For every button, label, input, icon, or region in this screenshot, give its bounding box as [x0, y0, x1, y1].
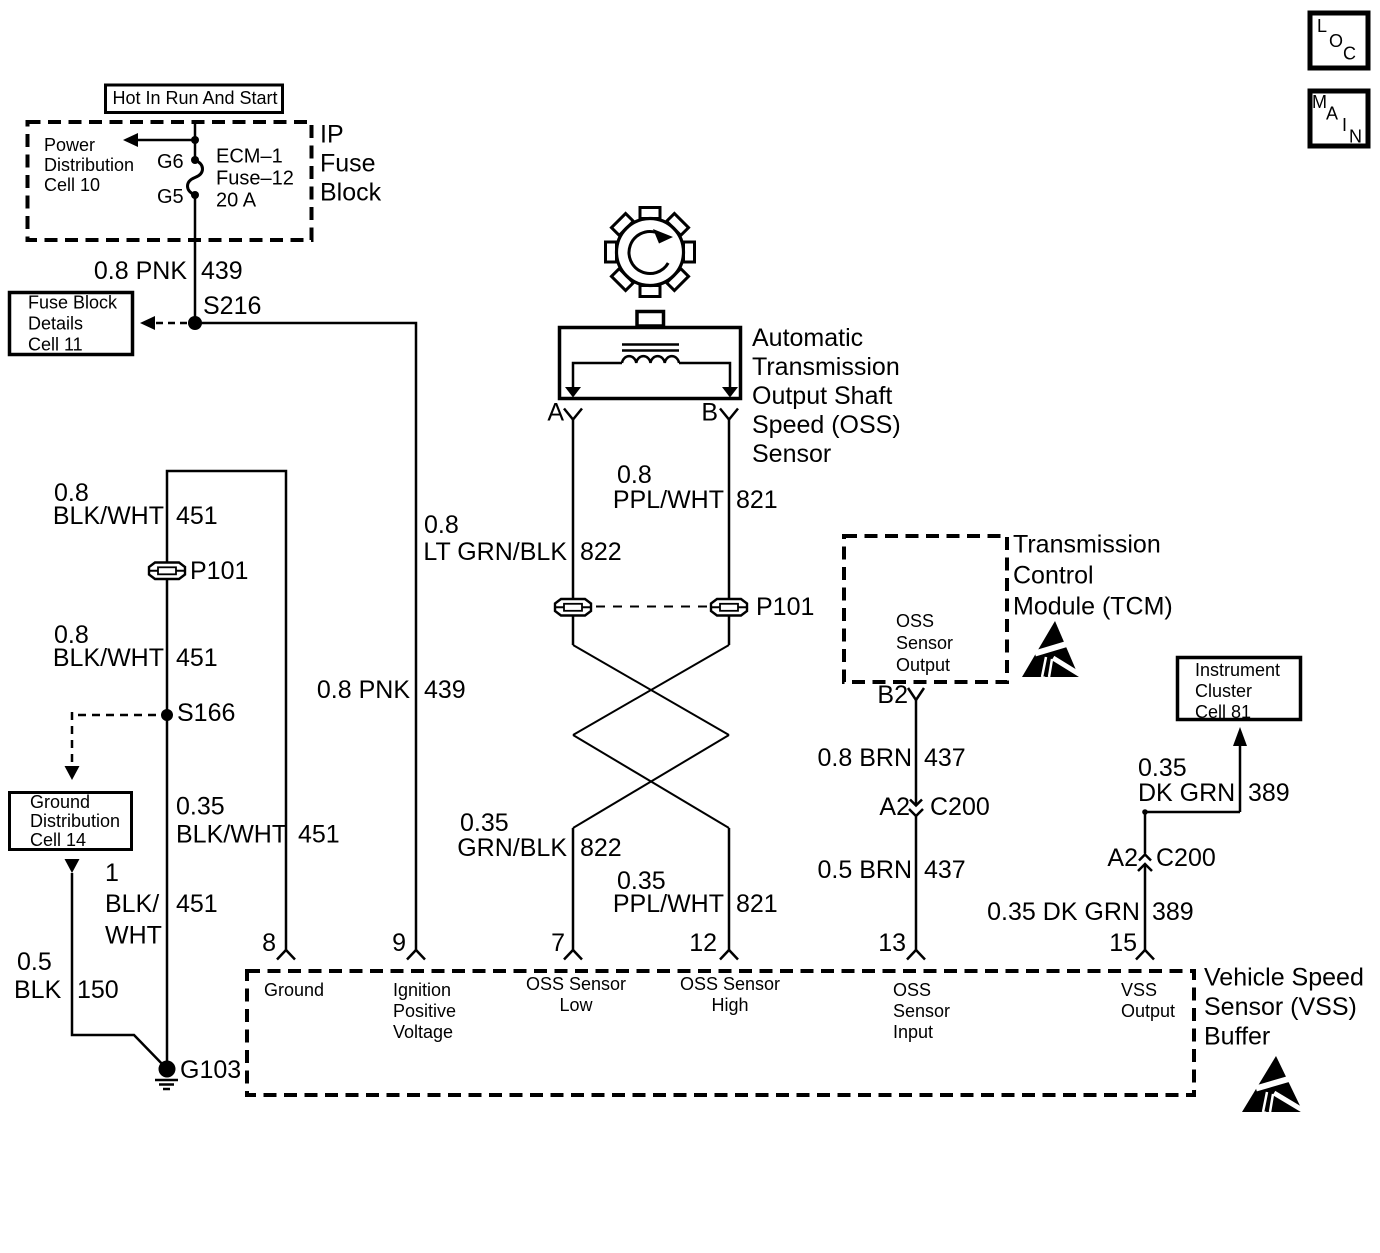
wire S216 over to ignition feed and down to pin 9 — [195, 323, 416, 950]
sensor pickup coil — [622, 356, 679, 363]
svg-text:8: 8 — [262, 929, 276, 957]
wire label 0.8 LT GRN/BLK 822 — [423, 511, 621, 566]
IP Fuse Block title — [320, 121, 382, 207]
svg-text:B2: B2 — [877, 681, 908, 709]
connector P101 (OSS low wire) — [555, 599, 591, 616]
svg-text:I: I — [1342, 115, 1347, 135]
svg-text:20 A: 20 A — [216, 190, 257, 212]
svg-text:PPL/WHT: PPL/WHT — [613, 890, 724, 918]
svg-text:0.35: 0.35 — [1138, 754, 1187, 782]
svg-text:Low: Low — [559, 995, 593, 1015]
wire label 0.8 PNK 439 (vertical run) — [317, 676, 466, 704]
svg-text:Cell 11: Cell 11 — [28, 335, 83, 355]
wire C200 down to pin 15 — [1144, 864, 1147, 950]
svg-text:7: 7 — [551, 929, 565, 957]
svg-text:389: 389 — [1152, 898, 1194, 926]
svg-text:Cell 81: Cell 81 — [1195, 702, 1251, 722]
svg-text:C200: C200 — [1156, 844, 1216, 872]
sensor internal wire to pin A — [565, 363, 622, 398]
arrow out of Ground Distribution box — [65, 859, 80, 873]
wire S166 down to G103 — [166, 715, 169, 1069]
svg-text:A2: A2 — [1107, 844, 1138, 872]
VSS buffer title: Vehicle Speed Sensor (VSS) Buffer — [1204, 964, 1364, 1051]
ESD warning symbol (TCM) — [1022, 621, 1087, 680]
svg-text:C: C — [1343, 44, 1356, 64]
wire below P101 right — [728, 616, 731, 646]
OSS Sensor Output label — [896, 611, 953, 675]
wire to pin 7 — [572, 828, 575, 950]
svg-text:OSS: OSS — [893, 980, 931, 1000]
svg-text:Module (TCM): Module (TCM) — [1013, 593, 1173, 621]
svg-text:L: L — [1317, 16, 1327, 36]
svg-text:Buffer: Buffer — [1204, 1023, 1270, 1051]
fuse terminal G6 — [157, 151, 199, 173]
svg-text:Voltage: Voltage — [393, 1022, 453, 1042]
svg-text:0.5 BRN: 0.5 BRN — [818, 856, 912, 884]
connector P101 (ground wire) — [149, 557, 248, 585]
svg-text:S216: S216 — [203, 292, 261, 320]
svg-text:G5: G5 — [157, 186, 184, 208]
svg-text:0.35: 0.35 — [460, 809, 509, 837]
svg-text:451: 451 — [176, 502, 218, 530]
pin 7 function label: OSS Sensor Low — [526, 974, 626, 1015]
svg-text:822: 822 — [580, 834, 622, 862]
wire label 0.5 BRN 437 — [818, 856, 966, 884]
svg-text:Ignition: Ignition — [393, 980, 451, 1000]
svg-text:OSS Sensor: OSS Sensor — [680, 974, 780, 994]
LOC page tag box — [1310, 13, 1368, 68]
svg-text:Sensor: Sensor — [896, 633, 953, 653]
wire to pin 12 — [728, 828, 731, 950]
pin 7 chevron and number — [551, 929, 582, 960]
wire label 0.5 BLK 150 — [14, 948, 119, 1004]
svg-text:Hot In Run And Start: Hot In Run And Start — [112, 88, 277, 108]
svg-text:PPL/WHT: PPL/WHT — [613, 486, 724, 514]
splice S216 — [188, 292, 261, 330]
ground loop wire (pin 8 up and over to left leg) — [167, 471, 286, 950]
svg-text:0.8 BRN: 0.8 BRN — [818, 744, 912, 772]
wire label 0.35 GRN/BLK 822 — [457, 809, 621, 862]
svg-text:Sensor: Sensor — [752, 440, 831, 468]
wire from pin B down — [728, 420, 731, 600]
svg-text:451: 451 — [298, 821, 340, 849]
fuse terminal G5 — [157, 186, 199, 208]
svg-text:12: 12 — [689, 929, 717, 957]
sensor title: Automatic Transmission Output Shaft Speed (OSS) Sensor — [752, 324, 901, 468]
wire label 0.35 DK GRN 389 (lower) — [987, 898, 1194, 926]
svg-text:Input: Input — [893, 1022, 933, 1042]
TCM title: Transmission Control Module (TCM) — [1013, 531, 1173, 621]
svg-text:451: 451 — [176, 644, 218, 672]
svg-text:Output Shaft: Output Shaft — [752, 382, 892, 410]
svg-text:Vehicle Speed: Vehicle Speed — [1204, 964, 1364, 992]
svg-text:BLK/WHT: BLK/WHT — [53, 502, 164, 530]
svg-text:Output: Output — [1121, 1001, 1175, 1021]
svg-text:Sensor (VSS): Sensor (VSS) — [1204, 993, 1357, 1021]
svg-text:BLK/: BLK/ — [105, 890, 159, 918]
svg-text:GRN/BLK: GRN/BLK — [457, 834, 567, 862]
wire label 0.35 BLK/WHT 451 — [176, 793, 340, 849]
pin 13 function label: OSS Sensor Input — [893, 980, 950, 1042]
IP fuse block dashed box — [28, 122, 312, 240]
sensor core lines — [622, 345, 679, 351]
twisted pair crossover — [573, 645, 729, 828]
pin 12 function label: OSS Sensor High — [680, 974, 780, 1015]
svg-text:150: 150 — [77, 976, 119, 1004]
svg-text:Cell 14: Cell 14 — [30, 830, 86, 850]
svg-text:451: 451 — [176, 890, 218, 918]
svg-text:Cluster: Cluster — [1195, 681, 1252, 701]
svg-text:439: 439 — [201, 257, 243, 285]
svg-text:13: 13 — [878, 929, 906, 957]
svg-text:O: O — [1329, 31, 1343, 51]
pin B2 chevron and label — [877, 681, 924, 709]
svg-text:Output: Output — [896, 655, 950, 675]
fuse value label ECM-1 Fuse-12 20 A — [216, 146, 294, 212]
arrow to Power Distribution — [123, 133, 195, 147]
wire label 0.35 DK GRN 389 (upper) — [1138, 754, 1290, 807]
wire B2 down to C200 — [915, 700, 918, 805]
sensor body box — [560, 328, 741, 399]
svg-text:BLK/WHT: BLK/WHT — [176, 821, 287, 849]
svg-text:Fuse Block: Fuse Block — [28, 293, 118, 313]
pin 15 chevron and number — [1109, 929, 1154, 960]
wire from Ground Distribution to G103 — [72, 873, 167, 1069]
sensor mounting tab — [637, 312, 664, 327]
pin 8 chevron and number — [262, 929, 295, 960]
svg-text:LT GRN/BLK: LT GRN/BLK — [423, 538, 567, 566]
svg-text:Transmission: Transmission — [1013, 531, 1161, 559]
svg-text:Fuse: Fuse — [320, 150, 376, 178]
svg-text:0.35 DK GRN: 0.35 DK GRN — [987, 898, 1140, 926]
svg-text:Sensor: Sensor — [893, 1001, 950, 1021]
ground G103 — [155, 1056, 241, 1089]
splice S166 — [161, 699, 235, 727]
wire label 0.35 PPL/WHT 821 — [613, 867, 778, 918]
wire from pin A down — [572, 420, 575, 600]
connector C200 (VSS output, A2) — [1107, 844, 1215, 872]
svg-text:DK GRN: DK GRN — [1138, 779, 1235, 807]
wire label 0.8 PPL/WHT 821 — [613, 461, 778, 514]
svg-text:Control: Control — [1013, 562, 1094, 590]
pin 12 chevron and number — [689, 929, 738, 960]
svg-text:N: N — [1349, 127, 1362, 147]
svg-text:437: 437 — [924, 744, 966, 772]
pin 13 chevron and number — [878, 929, 925, 960]
svg-text:0.8 PNK: 0.8 PNK — [94, 257, 187, 285]
svg-text:439: 439 — [424, 676, 466, 704]
svg-text:A2: A2 — [879, 793, 910, 821]
svg-text:BLK/WHT: BLK/WHT — [53, 644, 164, 672]
svg-text:G103: G103 — [180, 1056, 241, 1084]
wire P101 to S166 — [166, 579, 169, 715]
svg-text:0.8 PNK: 0.8 PNK — [317, 676, 410, 704]
svg-text:Speed (OSS): Speed (OSS) — [752, 411, 901, 439]
wire below P101 left — [572, 616, 575, 646]
svg-text:15: 15 — [1109, 929, 1137, 957]
svg-text:Distribution: Distribution — [30, 811, 120, 831]
wire label 0.8 BLK/WHT 451 (upper) — [53, 479, 218, 530]
svg-text:Cell 10: Cell 10 — [44, 175, 100, 195]
svg-text:Positive: Positive — [393, 1001, 456, 1021]
svg-text:Ground: Ground — [30, 792, 90, 812]
wire label 0.8 PNK 439 (upper run) — [94, 257, 243, 285]
svg-text:A: A — [1326, 104, 1338, 124]
svg-text:B: B — [701, 399, 718, 427]
svg-text:437: 437 — [924, 856, 966, 884]
svg-text:S166: S166 — [177, 699, 235, 727]
svg-text:M: M — [1312, 92, 1327, 112]
pin 9 chevron and number — [392, 929, 425, 960]
sensor internal wire to pin B — [679, 363, 738, 398]
svg-text:High: High — [711, 995, 748, 1015]
wire G5 down to splice S216 — [194, 195, 197, 323]
dashed arrow from S216 to Fuse Block Details — [140, 316, 188, 330]
dashed branch from S166 to Ground Distribution — [65, 712, 163, 780]
wire label 0.8 BLK/WHT 451 (lower) — [53, 621, 218, 672]
svg-text:G6: G6 — [157, 151, 184, 173]
dashed tie between P101 halves — [596, 606, 707, 608]
Fuse Block Details Cell 11 box — [10, 293, 133, 355]
svg-text:Fuse–12: Fuse–12 — [216, 168, 294, 190]
svg-text:Ground: Ground — [264, 980, 324, 1000]
svg-text:0.8: 0.8 — [617, 461, 652, 489]
svg-text:IP: IP — [320, 121, 344, 149]
svg-text:WHT: WHT — [105, 922, 162, 950]
connector P101 (OSS high wire) — [711, 593, 814, 621]
OSS sensor gear icon — [606, 208, 695, 297]
TCM dashed box — [844, 536, 1007, 682]
svg-text:0.8: 0.8 — [424, 511, 459, 539]
Power Distribution Cell 10 note — [44, 135, 134, 195]
svg-text:822: 822 — [580, 538, 622, 566]
connector C200 (OSS sensor input, A2) — [879, 793, 989, 821]
svg-text:OSS Sensor: OSS Sensor — [526, 974, 626, 994]
Ground Distribution Cell 14 box — [10, 792, 132, 850]
ESD warning symbol (VSS buffer) — [1242, 1056, 1309, 1115]
svg-text:Instrument: Instrument — [1195, 660, 1280, 680]
svg-text:821: 821 — [736, 486, 778, 514]
svg-text:821: 821 — [736, 890, 778, 918]
arrow up into Instrument Cluster — [1233, 727, 1247, 812]
svg-text:1: 1 — [105, 859, 119, 887]
svg-text:P101: P101 — [756, 593, 814, 621]
svg-text:BLK: BLK — [14, 976, 62, 1004]
svg-text:Block: Block — [320, 179, 382, 207]
svg-text:C200: C200 — [930, 793, 990, 821]
wire: feed from box top to fuse — [194, 122, 197, 160]
svg-text:Distribution: Distribution — [44, 155, 134, 175]
pin B connector chevron — [701, 399, 738, 427]
junction dot at power distribution tap — [191, 136, 199, 144]
pin 9 function label: Ignition Positive Voltage — [393, 980, 456, 1042]
svg-text:0.5: 0.5 — [17, 948, 52, 976]
svg-text:9: 9 — [392, 929, 406, 957]
svg-text:A: A — [547, 399, 564, 427]
label box: Hot In Run And Start — [106, 85, 283, 113]
svg-text:Transmission: Transmission — [752, 353, 900, 381]
Instrument Cluster Cell 81 box — [1178, 658, 1301, 723]
MAIN page tag box — [1310, 91, 1368, 147]
wire jog from VSS output to cluster — [1142, 809, 1240, 853]
svg-text:P101: P101 — [190, 557, 248, 585]
fuse ECM-1 Fuse-12 20A (S-curve element) — [188, 160, 203, 195]
svg-text:VSS: VSS — [1121, 980, 1157, 1000]
svg-text:Power: Power — [44, 135, 95, 155]
pin 15 function label: VSS Output — [1121, 980, 1175, 1021]
svg-text:OSS: OSS — [896, 611, 934, 631]
svg-text:Details: Details — [28, 314, 83, 334]
svg-text:389: 389 — [1248, 779, 1290, 807]
pin A connector chevron — [547, 399, 582, 427]
svg-text:Automatic: Automatic — [752, 324, 863, 352]
wire C200 down to pin 13 — [915, 816, 918, 950]
wire label 1 BLK/ WHT 451 — [105, 859, 218, 950]
VSS buffer dashed box — [247, 971, 1194, 1095]
svg-text:ECM–1: ECM–1 — [216, 146, 283, 168]
svg-text:0.35: 0.35 — [176, 793, 225, 821]
wire label 0.8 BRN 437 — [818, 744, 966, 772]
